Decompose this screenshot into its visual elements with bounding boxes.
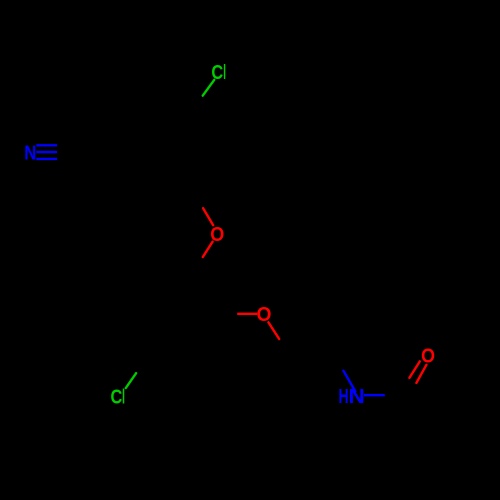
bond O-ring up (red half) (203, 208, 213, 225)
svg-text:C: C (211, 60, 223, 83)
svg-text:O: O (210, 224, 224, 246)
svg-text:O: O (256, 304, 271, 326)
bond O-ring down (red half) (203, 242, 213, 257)
atom label Cl (bottom chlorine) (111, 385, 126, 409)
bond ring-Cl bottom (green half) (126, 373, 136, 388)
bond O-CH2 diagonal (red half) (268, 322, 279, 339)
bond ring-Cl top (green half) (203, 80, 215, 96)
svg-text:C: C (111, 385, 123, 408)
svg-text:H: H (338, 385, 348, 408)
svg-text:N: N (349, 385, 365, 407)
svg-text:N: N (24, 141, 36, 164)
bond N-C horizontal (blue half) (364, 394, 385, 396)
svg-text:l: l (223, 63, 226, 84)
atom label HN (amide) (338, 385, 364, 408)
svg-text:O: O (421, 345, 435, 367)
atom label Cl (top chlorine) (211, 60, 226, 84)
bond CH2-N diagonal (blue half) (343, 371, 355, 392)
carbonyl C=O double bond (red halves) (409, 361, 419, 378)
nitrile triple bond C#N (blue half) (36, 145, 57, 159)
bond ring-O horizontal (red half) (237, 313, 257, 315)
svg-text:l: l (122, 386, 125, 408)
